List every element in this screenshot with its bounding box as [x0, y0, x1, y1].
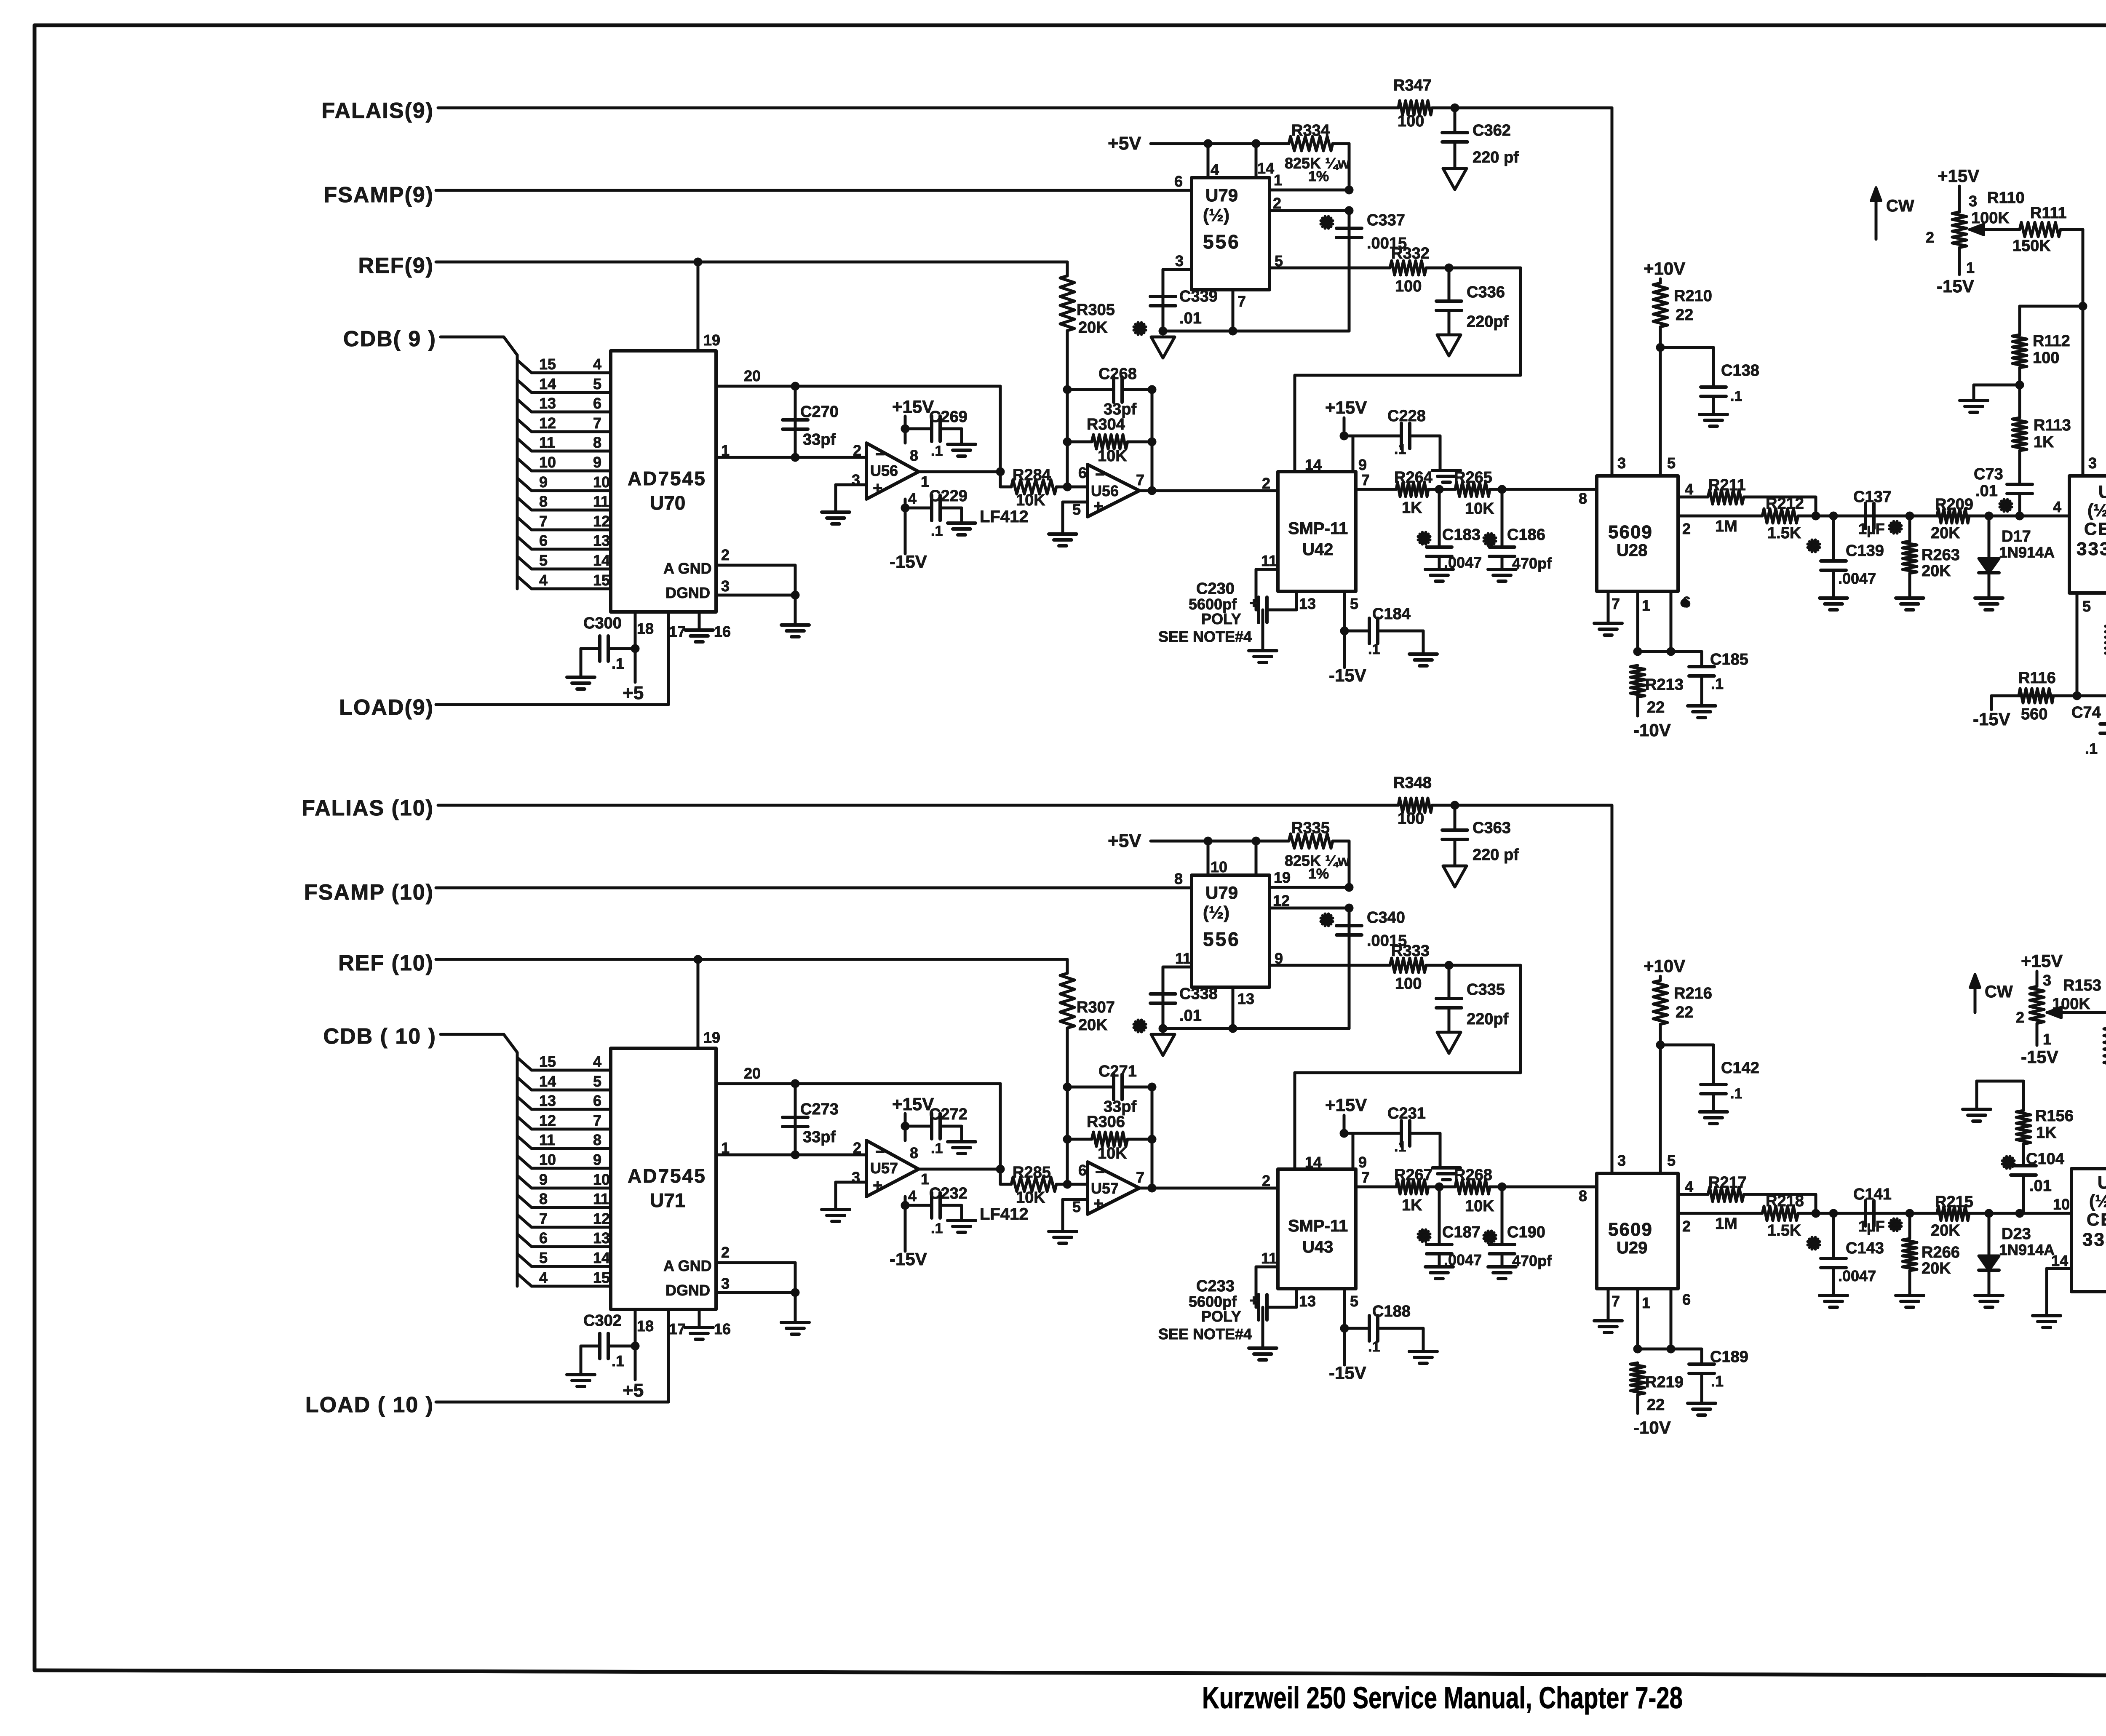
svg-text:8: 8	[593, 434, 601, 451]
svg-text:-15V: -15V	[1973, 709, 2010, 729]
svg-text:-15V: -15V	[890, 552, 927, 572]
svg-text:C185: C185	[1710, 651, 1748, 668]
svg-text:2: 2	[1262, 475, 1270, 492]
svg-text:100: 100	[1398, 112, 1424, 130]
svg-text:10K: 10K	[1016, 1189, 1045, 1207]
svg-text:R218: R218	[1766, 1192, 1804, 1210]
svg-text:9: 9	[539, 1171, 548, 1188]
svg-text:U16: U16	[2098, 1172, 2106, 1192]
svg-text:6: 6	[1078, 464, 1087, 481]
svg-text:17: 17	[669, 623, 686, 640]
svg-text:15: 15	[539, 1053, 556, 1070]
svg-text:+15V: +15V	[1325, 1095, 1367, 1115]
svg-text:13: 13	[1237, 990, 1254, 1007]
svg-text:470pf: 470pf	[1512, 1252, 1552, 1269]
svg-text:1: 1	[921, 473, 929, 490]
svg-text:9: 9	[1358, 1154, 1367, 1171]
svg-text:20K: 20K	[1078, 1016, 1108, 1034]
svg-text:5609: 5609	[1608, 1219, 1653, 1240]
svg-text:3: 3	[1617, 454, 1626, 472]
svg-text:1K: 1K	[1402, 499, 1422, 517]
svg-text:13: 13	[593, 532, 610, 549]
svg-text:DGND: DGND	[665, 1282, 710, 1299]
svg-text:.1: .1	[1730, 1086, 1742, 1102]
svg-text:C142: C142	[1721, 1059, 1759, 1077]
svg-text:.0047: .0047	[1838, 570, 1876, 587]
svg-text:U43: U43	[1302, 1238, 1333, 1256]
svg-text:.01: .01	[2029, 1177, 2052, 1195]
svg-text:.1: .1	[2085, 740, 2098, 757]
svg-text:.1: .1	[612, 655, 624, 672]
svg-text:100K: 100K	[1971, 209, 2010, 227]
svg-text:11: 11	[1261, 552, 1277, 569]
svg-text:13: 13	[593, 1229, 610, 1247]
svg-text:3: 3	[1617, 1152, 1626, 1169]
svg-text:16: 16	[714, 623, 731, 640]
svg-text:C187: C187	[1442, 1223, 1481, 1241]
svg-text:7: 7	[1237, 293, 1246, 310]
svg-text:.1: .1	[931, 523, 943, 539]
svg-text:FALAIS(9): FALAIS(9)	[322, 99, 434, 123]
svg-text:C189: C189	[1710, 1348, 1748, 1366]
svg-text:R209: R209	[1935, 496, 1973, 513]
svg-text:1N914A: 1N914A	[1999, 544, 2055, 561]
svg-text:LOAD ( 10 ): LOAD ( 10 )	[305, 1393, 434, 1417]
svg-text:1K: 1K	[2036, 1124, 2057, 1142]
svg-text:9: 9	[539, 473, 548, 491]
svg-text:6: 6	[593, 395, 601, 412]
svg-text:8: 8	[539, 1190, 548, 1207]
svg-text:-15V: -15V	[890, 1249, 927, 1269]
svg-text:R111: R111	[2030, 204, 2067, 222]
svg-text:R304: R304	[1087, 416, 1125, 433]
svg-text:4: 4	[908, 1187, 917, 1205]
svg-text:3335: 3335	[2077, 539, 2106, 559]
svg-text:C141: C141	[1853, 1186, 1892, 1203]
svg-text:CEM: CEM	[2087, 1210, 2106, 1229]
svg-text:SMP-11: SMP-11	[1288, 519, 1348, 538]
svg-text:11: 11	[539, 1131, 555, 1148]
svg-text:+: +	[873, 479, 882, 497]
svg-text:11: 11	[593, 493, 609, 510]
svg-text:C362: C362	[1473, 122, 1511, 139]
svg-text:7: 7	[1136, 1169, 1144, 1186]
svg-text:7: 7	[593, 414, 601, 432]
svg-text:R267: R267	[1394, 1166, 1433, 1184]
svg-text:C229: C229	[929, 487, 967, 505]
svg-text:FSAMP (10): FSAMP (10)	[304, 880, 434, 905]
svg-text:10K: 10K	[1016, 491, 1045, 509]
svg-text:4: 4	[539, 572, 548, 589]
svg-text:U79: U79	[1205, 883, 1238, 903]
svg-text:C184: C184	[1372, 605, 1411, 623]
svg-text:22: 22	[1676, 306, 1693, 324]
svg-text:.1: .1	[1711, 675, 1724, 692]
svg-text:R307: R307	[1077, 999, 1115, 1016]
svg-text:1M: 1M	[1715, 518, 1737, 535]
svg-text:5: 5	[593, 1073, 601, 1090]
svg-text:1: 1	[921, 1170, 929, 1188]
svg-text:17: 17	[669, 1320, 686, 1338]
svg-text:R112: R112	[2033, 332, 2070, 350]
svg-text:CDB( 9 ): CDB( 9 )	[343, 327, 436, 351]
svg-text:CEM: CEM	[2084, 519, 2106, 539]
svg-text:(½): (½)	[2089, 1191, 2106, 1211]
svg-text:7: 7	[1612, 595, 1620, 612]
svg-text:6: 6	[593, 1092, 601, 1109]
svg-text:.0047: .0047	[1444, 554, 1482, 571]
svg-text:220pf: 220pf	[1467, 1010, 1509, 1028]
svg-text:R284: R284	[1013, 466, 1051, 484]
svg-text:+15V: +15V	[892, 397, 934, 417]
svg-text:16: 16	[714, 1320, 731, 1338]
svg-text:C269: C269	[929, 408, 967, 426]
svg-text:+15V: +15V	[1325, 398, 1367, 417]
svg-text:U57: U57	[1091, 1180, 1119, 1197]
svg-text:20K: 20K	[1931, 524, 1960, 542]
svg-text:7: 7	[1361, 1169, 1370, 1186]
svg-text:C188: C188	[1372, 1303, 1411, 1320]
svg-text:220 pf: 220 pf	[1473, 846, 1519, 864]
svg-text:14: 14	[1257, 160, 1274, 177]
svg-text:R263: R263	[1922, 546, 1960, 564]
svg-text:C230: C230	[1196, 580, 1235, 598]
svg-text:7: 7	[593, 1112, 601, 1129]
svg-text:A GND: A GND	[663, 1257, 712, 1274]
svg-text:.1: .1	[931, 443, 943, 459]
svg-text:C138: C138	[1721, 362, 1759, 379]
svg-text:U28: U28	[1617, 541, 1647, 560]
svg-text:13: 13	[539, 395, 556, 412]
svg-text:C228: C228	[1387, 407, 1426, 425]
svg-text:C336: C336	[1467, 283, 1505, 301]
svg-text:14: 14	[2051, 1252, 2068, 1269]
svg-text:1M: 1M	[1715, 1215, 1737, 1233]
svg-text:.01: .01	[1179, 1007, 1202, 1025]
svg-text:R305: R305	[1077, 301, 1115, 319]
svg-text:150K: 150K	[2012, 237, 2051, 255]
svg-text:20: 20	[744, 367, 761, 385]
svg-text:10K: 10K	[1098, 1145, 1127, 1162]
svg-text:1.5K: 1.5K	[1767, 524, 1801, 542]
svg-text:R210: R210	[1674, 287, 1712, 305]
svg-text:10: 10	[539, 454, 556, 471]
svg-text:15: 15	[539, 355, 556, 373]
svg-text:3: 3	[2043, 972, 2051, 989]
svg-text:R306: R306	[1087, 1113, 1125, 1131]
svg-text:7: 7	[1612, 1293, 1620, 1310]
svg-text:100: 100	[1395, 278, 1422, 295]
svg-text:10K: 10K	[1098, 447, 1127, 465]
svg-text:13: 13	[539, 1092, 556, 1109]
svg-text:22: 22	[1647, 1396, 1665, 1414]
svg-text:C271: C271	[1098, 1063, 1137, 1080]
svg-text:(½): (½)	[2087, 500, 2106, 520]
svg-text:9: 9	[593, 454, 601, 471]
svg-text:5: 5	[1667, 454, 1676, 472]
svg-text:C231: C231	[1387, 1105, 1426, 1122]
svg-text:7: 7	[539, 1210, 548, 1227]
svg-text:U71: U71	[650, 1189, 685, 1211]
svg-text:C74: C74	[2071, 704, 2101, 721]
svg-text:D23: D23	[2002, 1225, 2031, 1243]
svg-text:C137: C137	[1853, 488, 1892, 506]
svg-text:560: 560	[2021, 705, 2047, 723]
svg-text:8: 8	[539, 493, 548, 510]
svg-text:.0047: .0047	[1444, 1251, 1482, 1269]
svg-text:C338: C338	[1179, 985, 1218, 1003]
svg-text:R216: R216	[1674, 985, 1712, 1002]
svg-text:12: 12	[539, 1112, 556, 1129]
svg-text:-10V: -10V	[1633, 720, 1671, 740]
svg-text:REF(9): REF(9)	[358, 254, 434, 278]
svg-text:100: 100	[2033, 349, 2059, 367]
svg-text:-15V: -15V	[2021, 1047, 2058, 1067]
svg-text:U16: U16	[2098, 482, 2106, 502]
svg-text:+: +	[873, 1176, 882, 1195]
svg-text:1: 1	[1642, 1294, 1650, 1311]
svg-text:7: 7	[1361, 471, 1370, 489]
svg-text:12: 12	[593, 1210, 610, 1227]
svg-text:1µF: 1µF	[1858, 520, 1885, 537]
svg-text:2: 2	[853, 1139, 861, 1156]
svg-text:220 pf: 220 pf	[1473, 149, 1519, 166]
svg-text:7: 7	[539, 513, 548, 530]
svg-text:R264: R264	[1394, 469, 1433, 486]
svg-text:C233: C233	[1196, 1277, 1235, 1295]
svg-text:CW: CW	[1886, 197, 1914, 215]
svg-text:2: 2	[721, 546, 730, 564]
svg-text:8: 8	[1579, 490, 1587, 507]
svg-text:4: 4	[1685, 1178, 1693, 1195]
svg-text:U56: U56	[1091, 482, 1119, 499]
svg-text:C273: C273	[800, 1100, 839, 1118]
svg-text:SEE NOTE#4: SEE NOTE#4	[1158, 628, 1252, 645]
svg-text:14: 14	[539, 375, 556, 393]
svg-text:1N914A: 1N914A	[1999, 1241, 2055, 1258]
svg-text:R153: R153	[2063, 977, 2101, 994]
svg-text:FSAMP(9): FSAMP(9)	[323, 183, 434, 207]
svg-text:4: 4	[593, 1053, 601, 1070]
svg-text:R113: R113	[2034, 417, 2071, 434]
svg-text:R213: R213	[1645, 676, 1684, 694]
svg-text:19: 19	[703, 331, 720, 349]
svg-text:+: +	[1093, 1194, 1103, 1213]
svg-text:8: 8	[1174, 870, 1183, 887]
svg-text:1: 1	[1966, 259, 1975, 276]
svg-text:14: 14	[1305, 1154, 1322, 1171]
svg-text:R211: R211	[1708, 476, 1746, 494]
svg-text:5: 5	[1350, 1293, 1358, 1310]
svg-text:3: 3	[721, 1275, 730, 1292]
svg-text:11: 11	[1261, 1250, 1277, 1267]
svg-text:470pf: 470pf	[1512, 555, 1552, 572]
svg-text:FALIAS (10): FALIAS (10)	[302, 796, 434, 820]
svg-text:.1: .1	[931, 1221, 943, 1237]
svg-text:R335: R335	[1291, 819, 1330, 837]
svg-text:C139: C139	[1846, 542, 1884, 560]
svg-text:+: +	[1249, 594, 1258, 612]
svg-text:12: 12	[539, 414, 556, 432]
svg-text:−: −	[875, 1143, 885, 1161]
svg-text:10: 10	[2053, 1196, 2070, 1213]
svg-text:9: 9	[1358, 456, 1367, 473]
svg-text:.1: .1	[1711, 1373, 1724, 1390]
svg-text:U42: U42	[1302, 540, 1333, 559]
svg-text:C302: C302	[583, 1312, 622, 1330]
svg-text:+15V: +15V	[2021, 951, 2063, 971]
svg-text:(½): (½)	[1203, 205, 1229, 225]
svg-text:33pf: 33pf	[803, 1128, 836, 1146]
svg-text:R268: R268	[1454, 1166, 1492, 1184]
svg-text:.1: .1	[1730, 388, 1742, 404]
svg-text:R266: R266	[1922, 1244, 1960, 1261]
svg-text:11: 11	[539, 434, 555, 451]
svg-text:-15V: -15V	[1937, 276, 1974, 296]
svg-text:1%: 1%	[1308, 866, 1329, 882]
svg-text:220pf: 220pf	[1467, 313, 1509, 331]
svg-text:R265: R265	[1454, 469, 1492, 486]
svg-text:11: 11	[593, 1190, 609, 1207]
svg-text:20: 20	[744, 1065, 761, 1082]
svg-text:3: 3	[1969, 192, 1977, 210]
svg-text:C340: C340	[1367, 909, 1405, 927]
svg-text:R215: R215	[1935, 1193, 1973, 1211]
svg-text:A GND: A GND	[663, 560, 712, 577]
svg-text:C339: C339	[1179, 288, 1218, 305]
svg-text:R116: R116	[2018, 669, 2056, 687]
svg-text:.1: .1	[1394, 441, 1406, 457]
svg-text:3: 3	[721, 577, 730, 595]
svg-text:.1: .1	[1394, 1139, 1406, 1155]
svg-text:9: 9	[593, 1151, 601, 1168]
svg-text:6: 6	[539, 532, 548, 549]
svg-text:C270: C270	[800, 403, 839, 421]
svg-text:-10V: -10V	[1633, 1418, 1671, 1437]
svg-text:4: 4	[1685, 481, 1693, 498]
svg-text:C186: C186	[1507, 526, 1545, 544]
svg-text:C272: C272	[929, 1106, 967, 1123]
svg-text:10: 10	[1211, 858, 1227, 876]
svg-text:1.5K: 1.5K	[1767, 1222, 1801, 1239]
svg-text:C232: C232	[929, 1185, 967, 1202]
svg-text:8: 8	[593, 1131, 601, 1148]
svg-text:3335: 3335	[2082, 1229, 2106, 1250]
svg-text:14: 14	[593, 552, 610, 569]
svg-text:100: 100	[1395, 975, 1422, 993]
svg-text:R219: R219	[1645, 1373, 1684, 1391]
svg-text:U29: U29	[1617, 1239, 1647, 1257]
svg-text:U56: U56	[870, 462, 898, 479]
svg-text:DGND: DGND	[665, 584, 710, 601]
svg-text:20K: 20K	[1922, 1260, 1951, 1277]
svg-text:13: 13	[1299, 595, 1316, 612]
svg-text:100: 100	[1398, 810, 1424, 828]
svg-text:C183: C183	[1442, 526, 1481, 544]
svg-text:C335: C335	[1467, 981, 1505, 999]
svg-text:20K: 20K	[1922, 562, 1951, 580]
svg-text:5: 5	[593, 375, 601, 393]
svg-text:2: 2	[721, 1244, 730, 1261]
svg-text:.1: .1	[1368, 641, 1380, 657]
svg-text:22: 22	[1676, 1004, 1693, 1021]
svg-text:5: 5	[1667, 1152, 1676, 1169]
svg-text:AD7545: AD7545	[628, 467, 706, 489]
svg-text:5: 5	[2082, 598, 2091, 615]
svg-text:19: 19	[1274, 869, 1291, 886]
svg-text:+5V: +5V	[1108, 133, 1141, 154]
svg-text:−: −	[1095, 465, 1105, 484]
svg-text:+: +	[1093, 497, 1103, 515]
svg-text:3: 3	[2088, 454, 2097, 472]
svg-text:.01: .01	[1179, 310, 1202, 327]
svg-text:-15V: -15V	[1329, 665, 1366, 685]
svg-text:18: 18	[637, 620, 654, 637]
svg-text:+5: +5	[623, 683, 644, 703]
svg-text:4: 4	[1211, 161, 1219, 178]
svg-text:7: 7	[1136, 471, 1144, 489]
svg-text:8: 8	[1579, 1187, 1587, 1205]
svg-text:U70: U70	[650, 492, 685, 514]
svg-text:+15V: +15V	[892, 1094, 934, 1114]
svg-text:10: 10	[593, 473, 610, 491]
svg-text:.0047: .0047	[1838, 1267, 1876, 1285]
svg-text:R333: R333	[1391, 942, 1430, 960]
svg-text:R110: R110	[1987, 189, 2025, 207]
svg-text:8: 8	[910, 1144, 918, 1162]
svg-text:12: 12	[593, 513, 610, 530]
svg-text:(½): (½)	[1203, 903, 1229, 922]
svg-text:14: 14	[593, 1249, 610, 1266]
svg-text:3: 3	[1175, 252, 1184, 270]
svg-text:10K: 10K	[1465, 1197, 1494, 1215]
svg-text:8: 8	[910, 447, 918, 464]
svg-text:SEE NOTE#4: SEE NOTE#4	[1158, 1325, 1252, 1343]
svg-text:5609: 5609	[1608, 522, 1653, 542]
svg-text:U57: U57	[870, 1159, 898, 1177]
svg-text:−: −	[875, 445, 885, 464]
svg-text:LOAD(9): LOAD(9)	[339, 695, 434, 720]
svg-text:LF412: LF412	[980, 1205, 1029, 1223]
svg-text:2: 2	[1682, 520, 1691, 537]
svg-text:POLY: POLY	[1201, 1308, 1241, 1325]
svg-text:SMP-11: SMP-11	[1288, 1217, 1348, 1235]
svg-text:15: 15	[593, 1269, 610, 1286]
svg-text:2: 2	[1262, 1172, 1270, 1189]
svg-text:1K: 1K	[2034, 433, 2054, 451]
svg-text:C363: C363	[1473, 819, 1511, 837]
svg-text:2: 2	[1682, 1218, 1691, 1235]
svg-text:+5V: +5V	[1108, 831, 1141, 851]
svg-text:R217: R217	[1708, 1174, 1747, 1191]
svg-text:C143: C143	[1846, 1239, 1884, 1257]
svg-text:R332: R332	[1391, 245, 1430, 262]
svg-text:U79: U79	[1205, 185, 1238, 205]
svg-text:19: 19	[703, 1029, 720, 1046]
svg-text:C300: C300	[583, 614, 622, 632]
svg-text:20K: 20K	[1078, 319, 1108, 337]
svg-text:14: 14	[1305, 456, 1322, 473]
svg-text:5: 5	[1350, 595, 1358, 612]
svg-text:5: 5	[539, 552, 548, 569]
svg-text:-15V: -15V	[1329, 1363, 1366, 1383]
svg-text:1K: 1K	[1402, 1197, 1422, 1214]
svg-text:6: 6	[539, 1229, 548, 1247]
svg-text:1: 1	[1642, 597, 1650, 614]
svg-text:4: 4	[593, 355, 601, 373]
svg-text:CW: CW	[1985, 983, 2013, 1001]
svg-text:−: −	[1095, 1163, 1105, 1181]
